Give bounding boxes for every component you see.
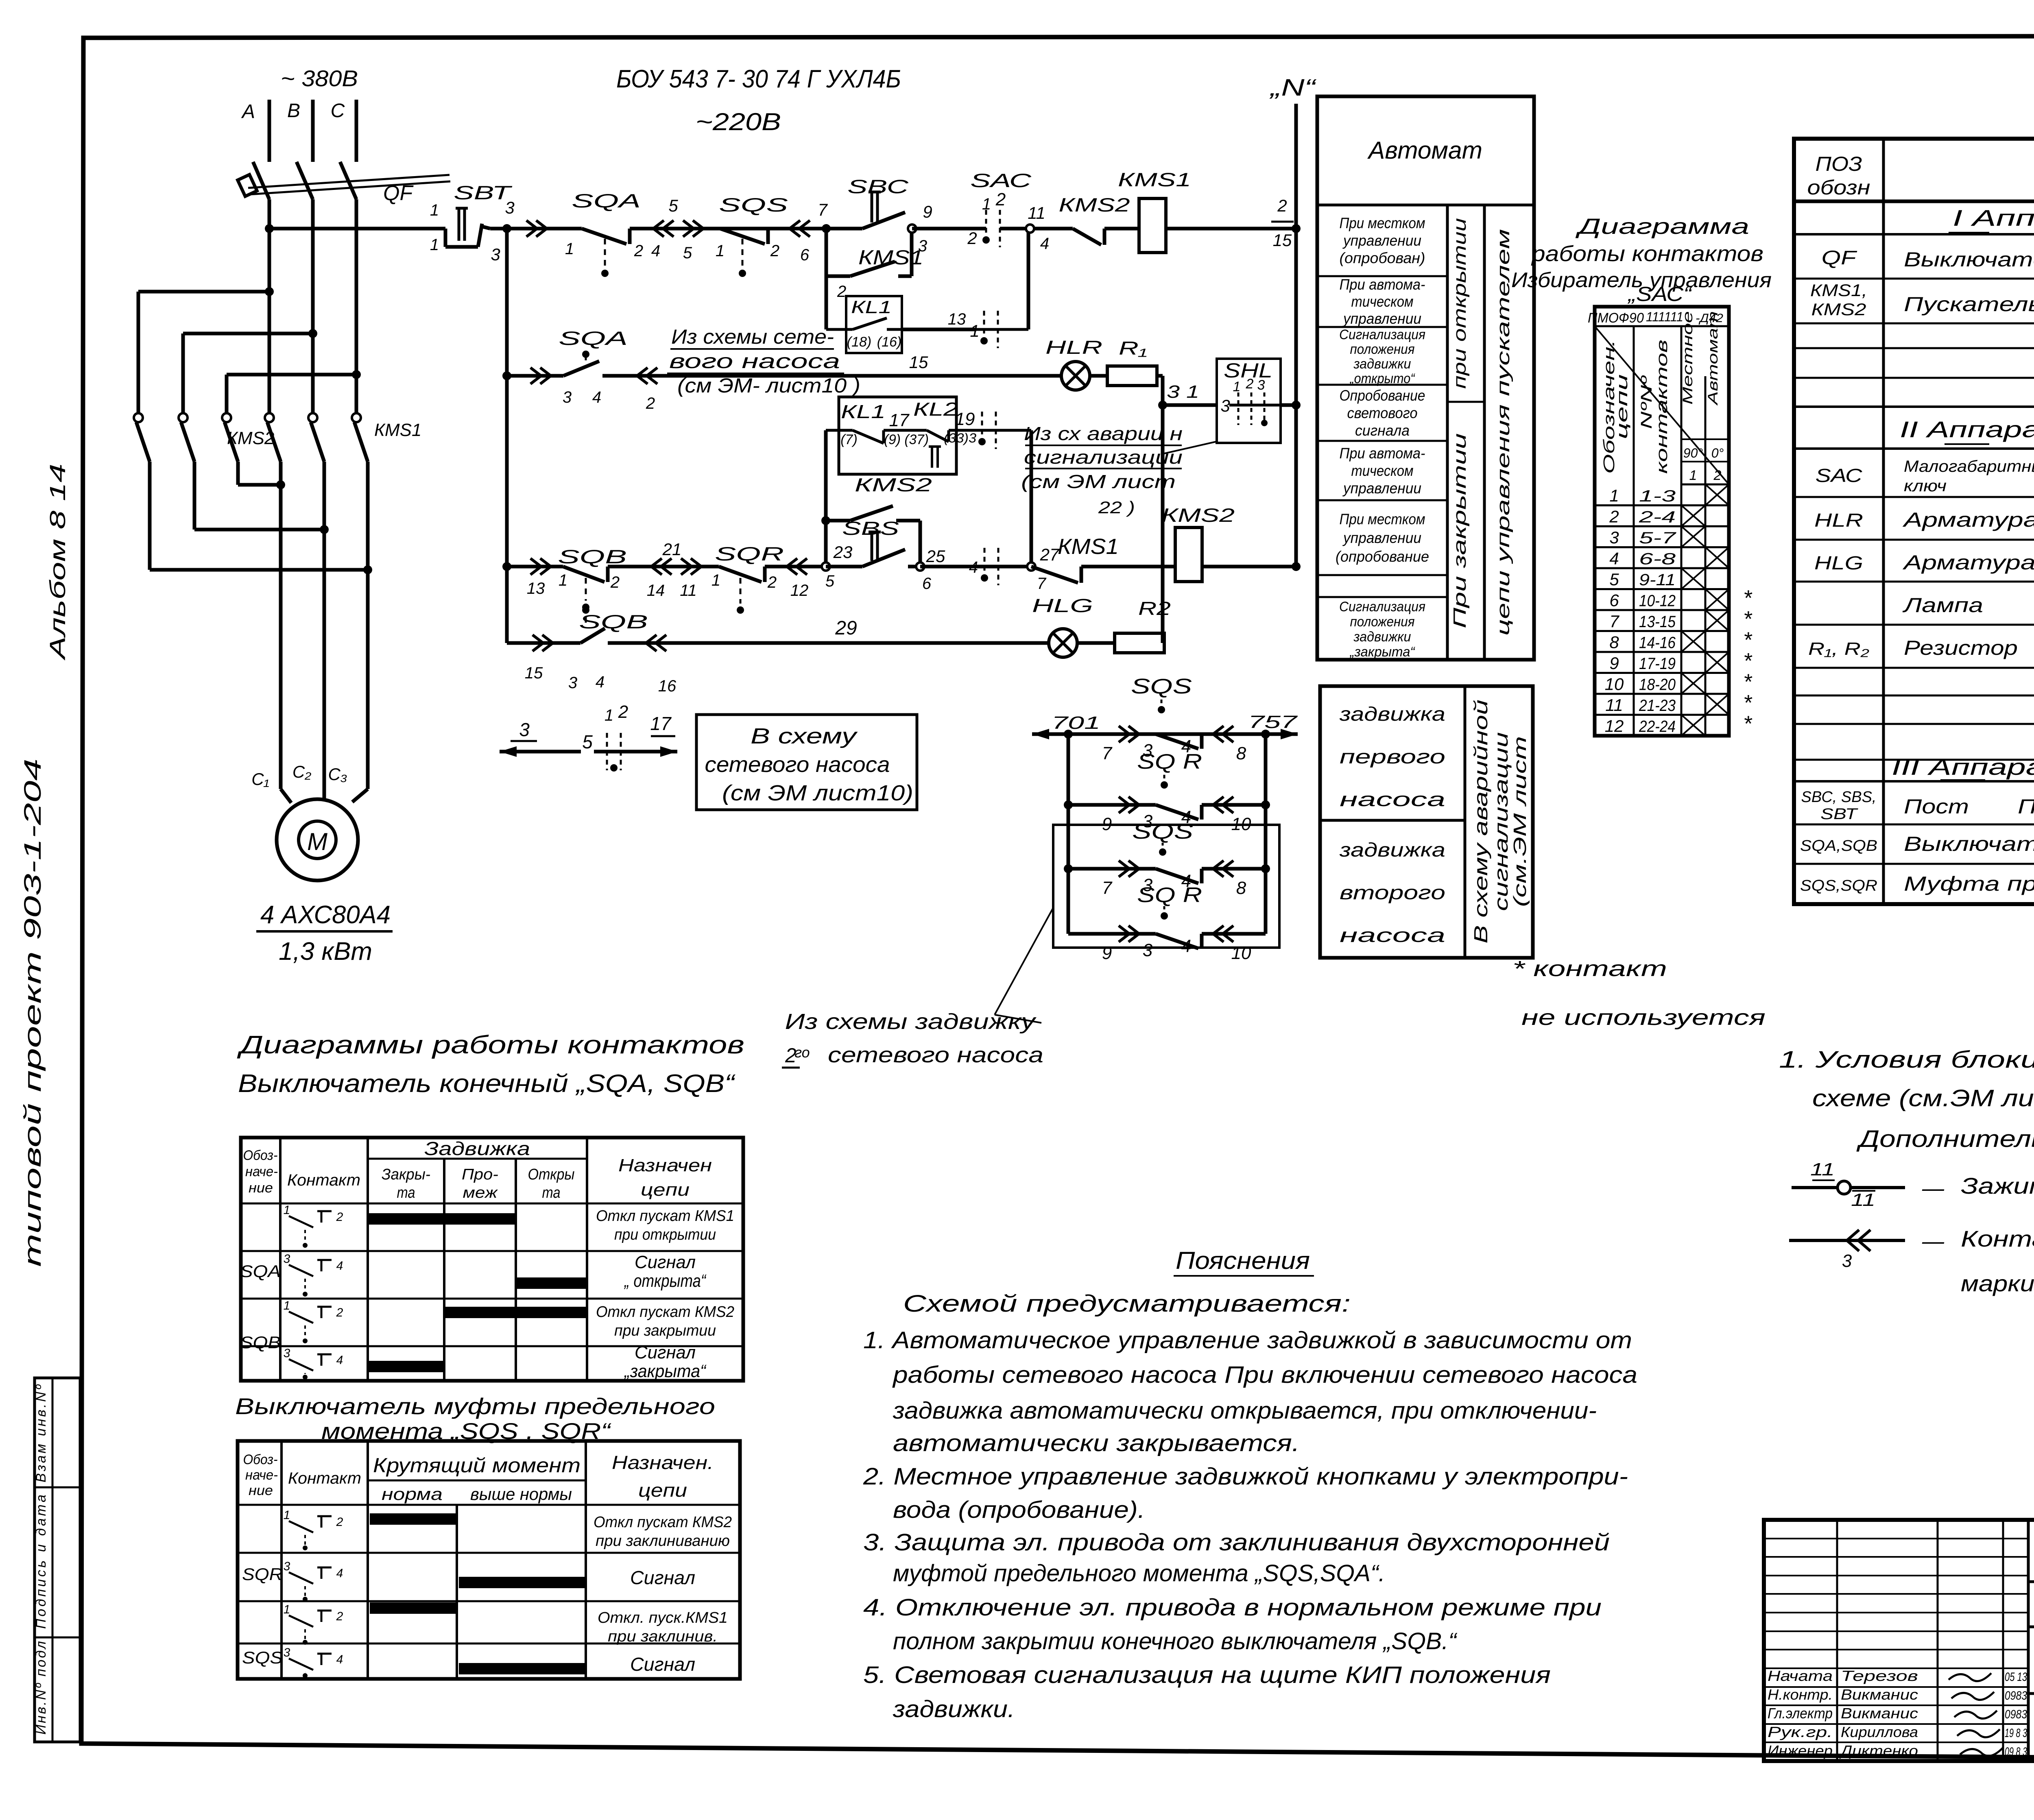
svg-text:С₁: С₁ bbox=[251, 769, 269, 789]
svg-text:1: 1 bbox=[430, 201, 439, 219]
svg-text:3: 3 bbox=[284, 1646, 290, 1659]
svg-text:10-12: 10-12 bbox=[1639, 592, 1676, 610]
svg-text:Про-: Про- bbox=[462, 1166, 498, 1183]
svg-text:2: 2 bbox=[336, 1515, 343, 1529]
svg-text:R₁: R₁ bbox=[1119, 338, 1147, 359]
svg-text:SВТ: SВТ bbox=[454, 182, 513, 203]
svg-text:наче-: наче- bbox=[245, 1164, 278, 1179]
svg-text:при открытии: при открытии bbox=[1450, 218, 1470, 389]
wire R2 return riser bbox=[1163, 405, 1164, 643]
svg-text:при открытии: при открытии bbox=[614, 1226, 716, 1243]
svg-text:23: 23 bbox=[833, 543, 853, 562]
svg-text:контактов: контактов bbox=[1654, 340, 1671, 474]
svg-text:(опробование: (опробование bbox=[1336, 548, 1429, 565]
svg-text:2. Местное управление задв: 2. Местное управление задвижкой кнопками… bbox=[863, 1463, 1628, 1490]
svg-text:0983: 0983 bbox=[2005, 1689, 2027, 1702]
svg-text:15: 15 bbox=[1273, 231, 1292, 250]
wire phase A bbox=[268, 100, 271, 162]
svg-text:16: 16 bbox=[658, 677, 677, 695]
node N label bbox=[1269, 74, 1317, 101]
svg-text:С: С bbox=[331, 100, 345, 122]
connector 16 bbox=[643, 617, 1049, 695]
motor lead label C1 bbox=[251, 769, 269, 789]
label ~380V bbox=[281, 65, 358, 91]
svg-text:11: 11 bbox=[1851, 1190, 1875, 1210]
svg-text:4 АХС80А4: 4 АХС80А4 bbox=[260, 901, 391, 929]
svg-text:SQА,SQВ: SQА,SQВ bbox=[1800, 837, 1877, 854]
svg-text:3 1: 3 1 bbox=[1167, 382, 1199, 402]
wire row2 start bbox=[507, 368, 563, 384]
svg-text:SQS: SQS bbox=[1131, 675, 1192, 698]
svg-text:полном закрытии конечного: полном закрытии конечного выключателя „S… bbox=[893, 1628, 1458, 1654]
svg-text:3: 3 bbox=[1143, 940, 1153, 960]
svg-text:5. Световая сигнализация: 5. Световая сигнализация на щите КИП пол… bbox=[863, 1662, 1551, 1688]
svg-text:автоматически закрывается.: автоматически закрывается. bbox=[893, 1430, 1300, 1456]
node 3 junction bbox=[491, 198, 514, 264]
text block uslovija blokirovki bbox=[1779, 1046, 2034, 1152]
wire left riser bbox=[502, 229, 511, 643]
svg-text:21: 21 bbox=[662, 540, 682, 559]
svg-text:„закрыта“: „закрыта“ bbox=[1349, 644, 1416, 660]
svg-text:Задвижка: Задвижка bbox=[424, 1138, 530, 1159]
svg-text:9: 9 bbox=[1609, 654, 1619, 673]
svg-text:маркировка.: маркировка. bbox=[1961, 1271, 2034, 1296]
svg-text:90°: 90° bbox=[1683, 446, 1703, 460]
svg-text:8: 8 bbox=[1236, 743, 1246, 763]
svg-text:SАС: SАС bbox=[1816, 465, 1863, 486]
svg-text:цепи управления пускателем: цепи управления пускателем bbox=[1493, 229, 1513, 636]
svg-text:Арматура АС 120 11У2: Арматура АС 120 11У2 И~220В bbox=[1902, 508, 2034, 531]
torque switch SQS row1 bbox=[716, 194, 788, 277]
svg-text:2: 2 bbox=[1246, 376, 1254, 392]
svg-text:(опробован): (опробован) bbox=[1340, 250, 1425, 266]
svg-text:при заклинив.: при заклинив. bbox=[608, 1628, 718, 1645]
svg-text:3: 3 bbox=[568, 674, 577, 692]
motor M bbox=[277, 799, 358, 881]
label ~220V bbox=[696, 108, 781, 135]
svg-text:12: 12 bbox=[1605, 717, 1624, 736]
note iz shemy setevogo nasosa bbox=[667, 325, 860, 397]
svg-text:Откл. пуск.КМS1: Откл. пуск.КМS1 bbox=[598, 1609, 728, 1626]
svg-text:1,3 кВт: 1,3 кВт bbox=[279, 937, 372, 966]
svg-text:сетевого насоса: сетевого насоса bbox=[828, 1043, 1043, 1067]
svg-text:наче-: наче- bbox=[245, 1467, 278, 1483]
relay contact KL1 (18)(16) bbox=[826, 296, 902, 353]
svg-text:Назначен: Назначен bbox=[618, 1155, 712, 1175]
svg-text:Пояснения: Пояснения bbox=[1176, 1247, 1310, 1274]
svg-text:КМS2: КМS2 bbox=[1059, 194, 1130, 216]
svg-text:Выключатель конечный МП-11: Выключатель конечный МП-1101 bbox=[1904, 833, 2034, 855]
selector SAC contact 13-row bbox=[970, 229, 1028, 348]
svg-text:норма: норма bbox=[382, 1484, 443, 1504]
svg-text:Зажим и его маркировка н: Зажим и его маркировка на Блоке управлен… bbox=[1961, 1173, 2034, 1199]
svg-text:положения: положения bbox=[1350, 342, 1415, 357]
svg-text:КМS2: КМS2 bbox=[855, 474, 932, 495]
lamp HLR bbox=[1045, 337, 1102, 390]
svg-text:управлении: управлении bbox=[1342, 310, 1421, 327]
svg-text:9: 9 bbox=[1102, 943, 1112, 963]
svg-text:12: 12 bbox=[790, 582, 809, 599]
svg-text:Арматура АС 120 13У2 И: Арматура АС 120 13У2 И ~220В bbox=[1902, 551, 2034, 574]
svg-text:КМS1: КМS1 bbox=[1118, 169, 1191, 190]
svg-text:„N“: „N“ bbox=[1269, 74, 1317, 101]
svg-text:Крутящий момент: Крутящий момент bbox=[373, 1454, 581, 1477]
wire phase drops below QF bbox=[269, 203, 356, 375]
svg-text:—: — bbox=[1922, 1176, 1945, 1201]
svg-text:II Аппараты на щите КИП: II Аппараты на щите КИП bbox=[1900, 416, 2034, 442]
svg-text:Викманис: Викманис bbox=[1841, 1686, 1918, 1703]
svg-text:17: 17 bbox=[889, 410, 910, 430]
svg-text:НLG: НLG bbox=[1032, 595, 1093, 616]
svg-text:10: 10 bbox=[1605, 675, 1624, 694]
svg-text:С₂: С₂ bbox=[292, 762, 311, 781]
table SQS SQR contact diagram bbox=[238, 1441, 740, 1679]
svg-text:14-16: 14-16 bbox=[1639, 634, 1676, 652]
connector 4-5 bbox=[651, 196, 789, 262]
svg-text:при закрытии: при закрытии bbox=[614, 1322, 716, 1339]
svg-text:5-7: 5-7 bbox=[1639, 529, 1677, 547]
node tap control bbox=[265, 224, 274, 233]
node 25 bbox=[916, 547, 945, 593]
svg-text:С₃: С₃ bbox=[328, 765, 347, 784]
svg-text:Выключатель муфты предельног: Выключатель муфты предельного bbox=[235, 1393, 715, 1419]
svg-text:2: 2 bbox=[618, 702, 628, 722]
svg-text:КМS2: КМS2 bbox=[1161, 504, 1235, 526]
svg-text:25: 25 bbox=[926, 547, 945, 566]
table parts list bbox=[1794, 139, 2034, 904]
svg-text:Диаграммы работы контакто: Диаграммы работы контактов bbox=[237, 1031, 744, 1059]
svg-text:А: А bbox=[241, 101, 255, 122]
svg-text:4: 4 bbox=[336, 1653, 343, 1666]
selector SAC row3 bbox=[920, 548, 1031, 585]
svg-text:SQА: SQА bbox=[240, 1262, 281, 1281]
svg-text:КL1: КL1 bbox=[851, 297, 892, 317]
svg-text:положения: положения bbox=[1350, 614, 1415, 630]
table zadvizhka nasosov bbox=[1320, 686, 1533, 958]
svg-text:Обоз-: Обоз- bbox=[243, 1148, 278, 1163]
svg-text:6: 6 bbox=[800, 246, 810, 264]
wire KL1 branch to 13 bbox=[826, 276, 976, 329]
svg-text:I Аппараты на НКУ: I Аппараты на НКУ bbox=[1953, 205, 2034, 231]
svg-text:18-20: 18-20 bbox=[1639, 676, 1676, 694]
svg-text:09 8 3: 09 8 3 bbox=[2005, 1745, 2027, 1759]
svg-text:КМS2: КМS2 bbox=[227, 428, 274, 448]
svg-text:(16): (16) bbox=[877, 334, 901, 350]
svg-text:Автомат: Автомат bbox=[1367, 137, 1482, 164]
svg-text:Из сх аварии н: Из сх аварии н bbox=[1024, 423, 1183, 444]
svg-text:7: 7 bbox=[1609, 612, 1619, 631]
svg-text:17: 17 bbox=[650, 713, 672, 734]
svg-text:3: 3 bbox=[1257, 377, 1265, 393]
svg-text:ПКЕ212-3: ПКЕ212-3 bbox=[2018, 795, 2034, 818]
svg-text:(см ЭМ лист10): (см ЭМ лист10) bbox=[722, 781, 913, 805]
svg-text:КМS1,: КМS1, bbox=[1810, 281, 1867, 300]
svg-text:В схему: В схему bbox=[751, 724, 858, 748]
svg-text:та: та bbox=[542, 1184, 561, 1201]
pump2 group box bbox=[1053, 825, 1279, 948]
svg-text:Муфта предельного момента: Муфта предельного момента bbox=[1904, 872, 2034, 895]
svg-text:3: 3 bbox=[1220, 396, 1230, 415]
svg-text:2: 2 bbox=[995, 190, 1006, 209]
svg-text:Схемой предусматривается:: Схемой предусматривается: bbox=[903, 1290, 1351, 1317]
svg-text:Диктенко: Диктенко bbox=[1839, 1742, 1918, 1759]
svg-text:5: 5 bbox=[825, 572, 835, 590]
left margin text типовой проект 903-1-204 bbox=[20, 759, 46, 1267]
svg-text:При местком: При местком bbox=[1340, 511, 1425, 527]
svg-text:2: 2 bbox=[967, 229, 977, 248]
svg-text:Откл пускат КМS2: Откл пускат КМS2 bbox=[594, 1514, 732, 1531]
svg-text:Откры: Откры bbox=[528, 1166, 575, 1183]
svg-text:2: 2 bbox=[610, 573, 620, 591]
svg-text:го: го bbox=[794, 1044, 810, 1061]
svg-text:Терезов: Терезов bbox=[1841, 1667, 1918, 1684]
title block main bbox=[1764, 1520, 2034, 1761]
svg-text:Автомат: Автомат bbox=[1705, 311, 1721, 406]
svg-text:БОУ 543 7- 30 74 Г УХЛ4Б: БОУ 543 7- 30 74 Г УХЛ4Б bbox=[616, 65, 901, 93]
wire 15 row2 bbox=[883, 353, 1061, 376]
switch SHL bbox=[1217, 359, 1281, 443]
push button SBT bbox=[430, 182, 513, 254]
svg-text:КМS2: КМS2 bbox=[1811, 300, 1866, 319]
aux contact KMS2 selfhold bbox=[826, 474, 932, 567]
svg-text:4: 4 bbox=[969, 558, 978, 576]
svg-text:1. Условия блокировки да: 1. Условия блокировки даны в функциональ… bbox=[1779, 1046, 2034, 1073]
svg-text:типовой проект 903-1-204: типовой проект 903-1-204 bbox=[20, 759, 46, 1267]
svg-text:„открыто“: „открыто“ bbox=[1349, 371, 1415, 386]
svg-text:Резистор: Резистор bbox=[1904, 636, 2018, 659]
svg-text:4: 4 bbox=[336, 1567, 343, 1580]
inventory stamp column bbox=[33, 1378, 80, 1742]
wire phase B bbox=[311, 100, 315, 162]
svg-text:сигнализации: сигнализации bbox=[1024, 447, 1183, 468]
torque switch SQR row3 bbox=[711, 543, 784, 614]
legend plug contact symbol bbox=[1789, 1226, 2034, 1296]
svg-text:15: 15 bbox=[525, 664, 543, 682]
wire to SHL bbox=[1163, 403, 1217, 407]
legend terminal symbol bbox=[1792, 1160, 2034, 1210]
svg-text:3. Защита эл. привода от: 3. Защита эл. привода от заклинивания дв… bbox=[863, 1529, 1610, 1556]
svg-text:Контакт: Контакт bbox=[288, 1469, 361, 1487]
motor lead label C3 bbox=[328, 765, 347, 784]
wire N bus bbox=[1294, 104, 1298, 567]
svg-text:работы сетевого насоса При: работы сетевого насоса При включении сет… bbox=[892, 1362, 1637, 1388]
svg-text:R2: R2 bbox=[1138, 598, 1171, 619]
svg-text:27: 27 bbox=[1040, 545, 1060, 564]
svg-text:3: 3 bbox=[519, 719, 530, 740]
svg-text:„SАС“: „SАС“ bbox=[1627, 283, 1692, 305]
limit switch SQB row4 bbox=[568, 606, 648, 692]
svg-text:Местное: Местное bbox=[1680, 311, 1696, 405]
svg-text:2: 2 bbox=[634, 242, 643, 260]
svg-text:2: 2 bbox=[837, 283, 846, 301]
svg-text:757: 757 bbox=[1248, 712, 1298, 732]
title diagram SAC bbox=[1511, 214, 1772, 305]
svg-text:~220В: ~220В bbox=[696, 108, 781, 135]
motor type label 4AXC80A4 1,3kW bbox=[256, 901, 393, 966]
svg-text:Выключатель конечный „SQА,: Выключатель конечный „SQА, SQВ“ bbox=[238, 1070, 736, 1098]
svg-text:6-8: 6-8 bbox=[1639, 550, 1676, 568]
svg-text:2: 2 bbox=[767, 573, 777, 591]
svg-text:1: 1 bbox=[430, 236, 439, 254]
push button SBC bbox=[826, 176, 912, 229]
svg-text:второго: второго bbox=[1340, 882, 1445, 904]
wire ladder top rail 701-757 bbox=[1032, 712, 1298, 739]
torque switch SQR pump1 row bbox=[1137, 750, 1202, 789]
svg-text:1: 1 bbox=[716, 242, 725, 260]
svg-text:SВС, SВS,: SВС, SВS, bbox=[1801, 789, 1877, 806]
wire motor leads bbox=[281, 485, 368, 803]
svg-text:29: 29 bbox=[835, 617, 857, 639]
svg-text:11: 11 bbox=[680, 582, 697, 599]
svg-text:Контакт: Контакт bbox=[287, 1171, 360, 1189]
svg-text:ПМОФ90: ПМОФ90 bbox=[1588, 310, 1644, 326]
svg-text:1: 1 bbox=[284, 1299, 290, 1312]
svg-text:17-19: 17-19 bbox=[1639, 655, 1676, 673]
svg-text:НLG: НLG bbox=[1814, 552, 1863, 573]
wire crossover h1 bbox=[138, 287, 274, 413]
svg-text:1: 1 bbox=[284, 1603, 290, 1616]
svg-text:3: 3 bbox=[284, 1560, 290, 1573]
svg-text:11: 11 bbox=[1028, 203, 1045, 222]
svg-text:При закрытии: При закрытии bbox=[1450, 433, 1470, 628]
svg-text:светового: светового bbox=[1347, 405, 1418, 421]
svg-text:Викманис: Викманис bbox=[1841, 1705, 1918, 1722]
svg-text:(7): (7) bbox=[840, 432, 858, 447]
circuit breaker QF bbox=[238, 162, 450, 292]
svg-text:КМS1: КМS1 bbox=[1058, 534, 1119, 559]
svg-text:III Аппараты у эл. привода: III Аппараты у эл. привода bbox=[1892, 754, 2034, 780]
svg-text:сигнализации: сигнализации bbox=[1491, 732, 1512, 911]
label BOU 5437-3074 bbox=[616, 65, 901, 93]
svg-text:Из схемы сете-: Из схемы сете- bbox=[671, 325, 834, 348]
svg-text:8: 8 bbox=[1236, 878, 1246, 898]
svg-text:5: 5 bbox=[582, 731, 593, 752]
svg-text:(9) (37): (9) (37) bbox=[884, 432, 929, 447]
wire merge j3 bbox=[150, 565, 372, 574]
svg-text:2-4: 2-4 bbox=[1638, 508, 1676, 526]
svg-text:Назначен.: Назначен. bbox=[612, 1452, 714, 1473]
svg-text:Гл.электр: Гл.электр bbox=[1768, 1705, 1833, 1722]
svg-text:КL1: КL1 bbox=[841, 401, 886, 422]
wire KL branch left riser bbox=[821, 430, 830, 567]
wire row3 start bbox=[507, 558, 563, 597]
table Avtomat bbox=[1317, 96, 1534, 660]
svg-text:Кириллова: Кириллова bbox=[1841, 1724, 1918, 1740]
svg-text:13: 13 bbox=[948, 310, 966, 328]
note box v shemu setevogo nasosa bbox=[696, 715, 917, 810]
svg-text:SQА: SQА bbox=[559, 327, 628, 349]
svg-text:„ открыта“: „ открыта“ bbox=[624, 1271, 707, 1291]
svg-text:Сигнал: Сигнал bbox=[635, 1343, 696, 1362]
svg-text:Инженер: Инженер bbox=[1768, 1742, 1833, 1759]
svg-text:цепи: цепи bbox=[638, 1480, 687, 1501]
title vykl mufty bbox=[235, 1393, 715, 1444]
svg-text:701: 701 bbox=[1052, 713, 1100, 733]
motor lead label C2 bbox=[292, 762, 311, 781]
svg-text:1: 1 bbox=[1609, 486, 1619, 505]
wire row1 to N bbox=[1166, 196, 1301, 250]
svg-text:Инв.Nº подл: Инв.Nº подл bbox=[33, 1641, 49, 1735]
svg-text:Закры-: Закры- bbox=[382, 1166, 430, 1183]
svg-text:КМS1: КМS1 bbox=[374, 420, 421, 440]
svg-text:Из схемы задвижку: Из схемы задвижку bbox=[785, 1009, 1037, 1034]
svg-text:муфтой предельного момент: муфтой предельного момента „SQS,SQА“. bbox=[893, 1560, 1385, 1587]
torque switch SQS pump1 row bbox=[1131, 675, 1192, 713]
svg-text:Пост: Пост bbox=[1904, 795, 1969, 818]
svg-text:3: 3 bbox=[563, 388, 572, 406]
svg-text:7: 7 bbox=[1037, 575, 1047, 593]
svg-text:Н.контр.: Н.контр. bbox=[1768, 1686, 1833, 1703]
node 11 junction bbox=[1000, 203, 1049, 253]
svg-text:М: М bbox=[307, 828, 327, 855]
svg-text:управлении: управлении bbox=[1342, 232, 1421, 249]
svg-text:SQR: SQR bbox=[242, 1565, 283, 1584]
svg-text:1. Автоматическое управлени: 1. Автоматическое управление задвижкой в… bbox=[863, 1327, 1632, 1354]
svg-text:при заклиниванию: при заклиниванию bbox=[596, 1532, 730, 1550]
title diagrams SQA SQB bbox=[237, 1031, 744, 1098]
svg-text:3: 3 bbox=[1609, 528, 1619, 547]
svg-text:3: 3 bbox=[284, 1252, 290, 1266]
svg-text:„закрыта“: „закрыта“ bbox=[624, 1361, 707, 1381]
svg-text:22 ): 22 ) bbox=[1098, 498, 1135, 517]
svg-text:При местком: При местком bbox=[1340, 215, 1425, 231]
coil KMS1 bbox=[1118, 169, 1191, 253]
svg-text:7: 7 bbox=[1102, 878, 1113, 898]
svg-text:Сигнал: Сигнал bbox=[630, 1654, 695, 1675]
svg-text:4: 4 bbox=[1040, 235, 1049, 253]
connector 3 bbox=[507, 220, 547, 237]
svg-text:(см ЭМ- лист10 ): (см ЭМ- лист10 ) bbox=[677, 374, 860, 397]
svg-text:5: 5 bbox=[1609, 570, 1619, 589]
svg-text:4: 4 bbox=[336, 1354, 343, 1367]
svg-text:SQS: SQS bbox=[1132, 820, 1193, 844]
svg-text:6: 6 bbox=[922, 575, 932, 593]
svg-text:2: 2 bbox=[646, 395, 655, 412]
svg-text:SАС: SАС bbox=[970, 170, 1032, 191]
svg-text:3: 3 bbox=[491, 245, 500, 264]
svg-text:3: 3 bbox=[505, 198, 514, 217]
svg-text:Откл пускат КМS1: Откл пускат КМS1 bbox=[596, 1208, 734, 1225]
svg-text:насоса: насоса bbox=[1340, 925, 1445, 946]
limit switch SQA row1 bbox=[547, 190, 651, 277]
svg-text:Пускатель ПМЛ 150104Б И~22: Пускатель ПМЛ 150104Б И~220В bbox=[1904, 293, 2034, 316]
svg-text:та: та bbox=[397, 1184, 415, 1201]
svg-text:КМS1: КМS1 bbox=[858, 246, 923, 269]
svg-text:*: * bbox=[1743, 712, 1752, 736]
svg-text:ние: ние bbox=[249, 1483, 273, 1498]
svg-text:Выключатель АЕ2026- 10У3 I: Выключатель АЕ2026- 10У3 I р 10А bbox=[1904, 248, 2034, 271]
svg-text:4. Отключение эл. привода: 4. Отключение эл. привода в нормальном р… bbox=[863, 1594, 1602, 1621]
note iz sh avarijnoj signalizacii bbox=[1021, 423, 1216, 517]
svg-text:задвижки.: задвижки. bbox=[893, 1696, 1015, 1722]
svg-text:7: 7 bbox=[1102, 743, 1113, 763]
svg-text:11: 11 bbox=[1810, 1160, 1835, 1179]
svg-text:ние: ние bbox=[249, 1180, 273, 1196]
left margin text Альбом 8 14 bbox=[46, 464, 70, 661]
svg-text:0°: 0° bbox=[1711, 446, 1724, 460]
torque switch SQS pump2 row bbox=[1132, 820, 1193, 856]
svg-text:задвижка автоматически отк: задвижка автоматически открывается, при … bbox=[893, 1397, 1597, 1424]
svg-text:При автома-: При автома- bbox=[1340, 445, 1425, 462]
svg-text:НLR: НLR bbox=[1814, 510, 1863, 531]
svg-text:цепи: цепи bbox=[1614, 374, 1631, 439]
table SQA SQB contact diagram bbox=[240, 1138, 743, 1381]
svg-text:15: 15 bbox=[909, 353, 928, 372]
node B label bbox=[287, 100, 300, 122]
node 27 bbox=[1027, 545, 1060, 593]
wire merge j1 bbox=[238, 480, 285, 489]
svg-text:сетевого насоса: сетевого насоса bbox=[705, 752, 890, 777]
